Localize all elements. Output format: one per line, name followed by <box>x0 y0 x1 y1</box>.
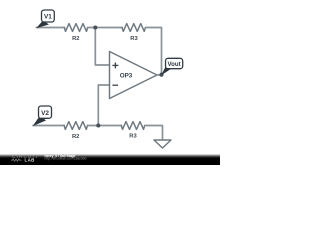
junction node B <box>96 123 100 127</box>
node flag Vout tail <box>161 65 172 76</box>
svg-text:V2: V2 <box>41 110 49 117</box>
op-amp plus input sign <box>112 62 118 68</box>
wire op-amp - input down to node B <box>98 85 109 126</box>
node flag V2 bubble <box>39 106 52 118</box>
op-amp OP3 triangle <box>110 52 158 99</box>
op-amp minus input sign <box>112 84 118 86</box>
node flag Vout bubble <box>166 58 183 68</box>
wire R3 bottom to ground <box>145 126 163 141</box>
wire node B to R3 bottom <box>87 125 121 127</box>
watermark logo resistor glyph <box>11 159 22 161</box>
node flag V2 tail <box>33 116 46 127</box>
ground <box>154 140 171 148</box>
watermark footer bar <box>0 154 220 165</box>
svg-text:OP3: OP3 <box>120 73 133 80</box>
resistor R3 (top, feedback) <box>122 24 145 32</box>
svg-text:V1: V1 <box>44 14 52 21</box>
node flag V1 bubble <box>42 10 55 22</box>
svg-text:R2: R2 <box>72 36 79 42</box>
resistor R2 (bottom) <box>64 122 87 130</box>
wire V1 to R2 <box>36 27 64 29</box>
svg-text:LAB: LAB <box>25 157 35 162</box>
wire node A to R3 <box>88 27 123 29</box>
svg-text:R3: R3 <box>129 134 137 140</box>
svg-text:Vout: Vout <box>168 61 181 68</box>
resistor R2 (top) <box>64 24 87 32</box>
wire R3 to output (feedback right side) <box>145 28 161 75</box>
wire node A down to op-amp + input <box>95 28 109 66</box>
wire V2 to R2 bottom <box>33 125 64 127</box>
op-amp output stub wire <box>157 74 162 76</box>
node flag V1 tail <box>36 21 49 29</box>
junction node A <box>93 25 97 29</box>
svg-text:R2: R2 <box>72 134 79 140</box>
resistor R3 (bottom) <box>121 122 144 130</box>
junction node Vout <box>159 73 163 77</box>
svg-text:R3: R3 <box>130 36 138 42</box>
svg-text:http://circuitlab.com/c3azddd: http://circuitlab.com/c3azddd <box>45 157 87 161</box>
